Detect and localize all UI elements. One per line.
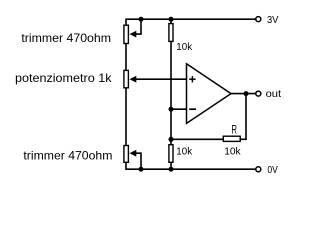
wire bottom rail 0V — [126, 163, 255, 169]
junction dot bottom rail wiper tap — [139, 167, 144, 172]
wire feedback left to mid rail — [171, 138, 223, 140]
trimmer R2 body (bottom left) — [124, 146, 128, 163]
junction dot inverting input — [169, 107, 174, 112]
svg-text:trimmer 470ohm: trimmer 470ohm — [23, 148, 112, 162]
junction dot top rail wiper tap — [139, 17, 144, 22]
wire pot to T2 — [125, 89, 127, 145]
wire mid rail top — [170, 19, 172, 23]
svg-text:R: R — [231, 123, 237, 137]
junction dot output — [244, 91, 249, 96]
wire mid rail center — [170, 42, 172, 144]
svg-text:10k: 10k — [224, 146, 241, 157]
svg-text:10k: 10k — [176, 42, 193, 53]
wire left column T1 to pot — [125, 44, 127, 69]
terminal 0V — [256, 167, 261, 172]
wire mid rail bottom — [170, 163, 172, 169]
op-amp - input symbol — [189, 108, 196, 110]
junction dot feedback mid rail — [169, 137, 174, 142]
svg-text:3V: 3V — [267, 15, 278, 26]
svg-text:10k: 10k — [176, 146, 193, 157]
terminal 3V — [256, 17, 261, 22]
svg-text:out: out — [266, 89, 282, 100]
svg-text:trimmer 470ohm: trimmer 470ohm — [21, 31, 111, 45]
wire T2 wiper tap — [136, 153, 142, 169]
terminal out — [256, 91, 261, 96]
wire op-amp - input — [171, 108, 187, 110]
resistor R feedback body — [223, 136, 240, 141]
resistor 10k top body — [169, 24, 173, 42]
wire T1 wiper tap — [136, 19, 142, 34]
junction dot top rail 10k — [169, 17, 174, 22]
potentiometer body (middle left) — [124, 70, 128, 87]
op-amp + input symbol — [189, 76, 195, 82]
wire pot wiper to op-amp + input — [136, 78, 187, 80]
junction dot bottom rail 10k — [169, 167, 174, 172]
wire top rail 3V — [126, 19, 255, 24]
wire feedback right vertical — [241, 94, 246, 140]
trimmer R1 body (top left) — [124, 25, 128, 43]
svg-text:potenziometro 1k: potenziometro 1k — [15, 71, 113, 85]
arrowhead pot wiper — [130, 76, 137, 83]
arrowhead T1 wiper — [130, 31, 137, 38]
wire op-amp output — [231, 93, 255, 95]
svg-text:0V: 0V — [267, 165, 277, 176]
resistor 10k bottom body — [169, 145, 173, 163]
op-amp U1 triangle — [187, 64, 232, 124]
arrowhead T2 wiper — [130, 150, 137, 157]
